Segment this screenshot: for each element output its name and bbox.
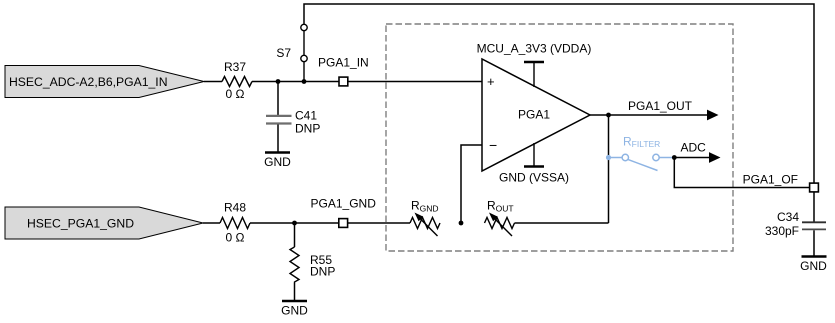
svg-text:PGA1_OF: PGA1_OF	[743, 173, 798, 187]
svg-text:ADC: ADC	[681, 141, 707, 155]
svg-text:PGA1_OUT: PGA1_OUT	[628, 99, 693, 113]
svg-text:0 Ω: 0 Ω	[226, 87, 245, 101]
connector PGA1_GND	[311, 197, 377, 228]
svg-text:MCU_A_3V3 (VDDA): MCU_A_3V3 (VDDA)	[477, 42, 592, 56]
svg-text:S7: S7	[276, 46, 291, 60]
svg-text:C34: C34	[777, 210, 799, 224]
wire R_OUT to feedback vertical	[515, 222, 609, 224]
connector PGA1_IN	[318, 56, 369, 86]
wire inverting input to bottom rail	[461, 145, 482, 223]
node junction at R55 tap	[292, 221, 297, 226]
resistor R55 DNP	[290, 223, 335, 300]
resistor R_GND	[410, 199, 440, 237]
flag HSEC_PGA1_GND	[5, 207, 203, 239]
svg-text:DNP: DNP	[310, 265, 335, 279]
svg-text:GND (VSSA): GND (VSSA)	[499, 171, 569, 185]
svg-text:HSEC_ADC-A2,B6,PGA1_IN: HSEC_ADC-A2,B6,PGA1_IN	[9, 75, 168, 89]
wire output feedback vertical	[608, 115, 610, 223]
svg-text:0 Ω: 0 Ω	[226, 231, 245, 245]
wire R37 to op-amp input rail	[252, 81, 482, 83]
wire ADC with arrow	[674, 141, 720, 163]
svg-text:R48: R48	[224, 201, 246, 215]
svg-text:+: +	[487, 74, 495, 89]
capacitor C34 330pF	[765, 192, 826, 256]
resistor R_OUT	[485, 199, 515, 237]
svg-text:GND: GND	[264, 155, 291, 169]
node ADC junction	[672, 155, 677, 160]
svg-text:GND: GND	[281, 304, 308, 318]
svg-text:GND: GND	[800, 259, 827, 273]
svg-text:R37: R37	[224, 60, 246, 74]
wire R48 to R_GND rail	[250, 222, 410, 224]
wire op-amp output	[590, 114, 609, 116]
svg-text:C41: C41	[295, 109, 317, 123]
svg-text:HSEC_PGA1_GND: HSEC_PGA1_GND	[27, 217, 134, 231]
ground under C41	[264, 153, 291, 170]
connector PGA1_OF	[743, 173, 819, 192]
ground under C34	[800, 257, 827, 274]
ground GND (VSSA)	[499, 143, 569, 185]
svg-text:PGA1_IN: PGA1_IN	[318, 56, 369, 70]
flag HSEC_ADC-A2,B6,PGA1_IN	[5, 66, 204, 98]
resistor R48 0 Ohm	[220, 201, 250, 245]
wire PGA1_OUT with arrow	[609, 99, 719, 120]
dashed PGA block boundary	[386, 24, 733, 251]
node junction feedback/inverting	[459, 221, 464, 226]
resistor R37 0 Ohm	[222, 60, 252, 101]
svg-text:PGA1: PGA1	[518, 108, 550, 122]
svg-text:−: −	[489, 137, 497, 153]
wire flag1 to R37	[204, 81, 222, 83]
wire top loop from S7 to PGA1_OF	[304, 4, 814, 183]
node junction at C41 tap	[276, 79, 281, 84]
switch S7	[276, 24, 307, 81]
capacitor C41 DNP	[266, 82, 320, 152]
node output junction	[606, 113, 611, 118]
op-amp U PGA1	[482, 59, 590, 171]
svg-text:330pF: 330pF	[765, 224, 799, 238]
svg-text:DNP: DNP	[295, 122, 320, 136]
power MCU_A_3V3 (VDDA)	[477, 42, 592, 88]
wire flag2 to R48	[203, 222, 220, 224]
ground under R55	[281, 301, 308, 318]
node junction at S7 tap	[302, 79, 307, 84]
svg-text:PGA1_GND: PGA1_GND	[311, 197, 377, 211]
wire ADC node to PGA1_OF	[674, 158, 810, 188]
switch R_FILTER	[606, 135, 672, 171]
